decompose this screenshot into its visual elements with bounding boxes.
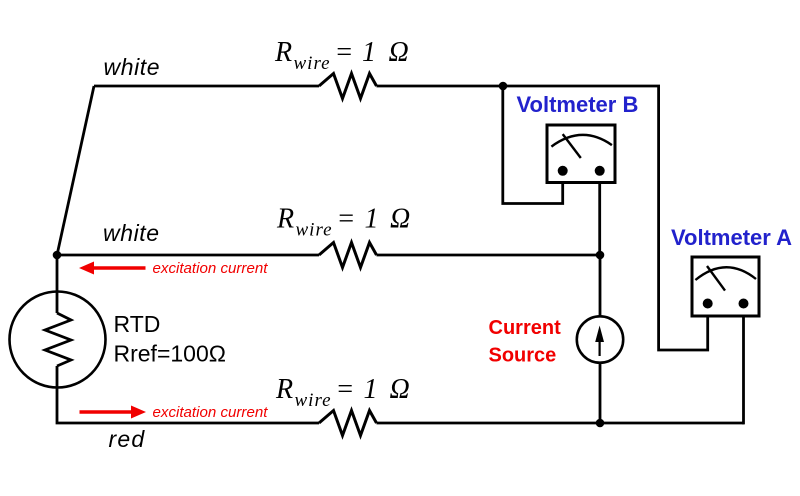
svg-text:1: 1 xyxy=(362,37,376,68)
svg-text:Voltmeter A: Voltmeter A xyxy=(671,225,792,250)
arrow: excitation current (middle, pointing left) xyxy=(79,262,146,275)
svg-text:R: R xyxy=(275,374,293,405)
node: junction dot on top wire xyxy=(499,82,508,91)
wire: top white lead, horizontal left segment xyxy=(94,85,319,88)
svg-text:white: white xyxy=(103,220,160,246)
node: junction dot at RTD top xyxy=(53,251,62,260)
voltmeter A terminal dots xyxy=(703,299,713,309)
svg-text:1: 1 xyxy=(364,374,378,405)
wire: bottom red lead, horizontal right segment xyxy=(377,422,745,425)
node: junction dot middle wire / current source xyxy=(596,251,605,260)
svg-text:Rref=100Ω: Rref=100Ω xyxy=(114,341,226,367)
svg-text:=: = xyxy=(336,374,355,405)
wire: diagonal from top wire down to RTD node xyxy=(57,86,94,255)
label Rwire = 1 Ω (middle) xyxy=(276,204,410,241)
svg-text:wire: wire xyxy=(294,53,331,74)
svg-text:=: = xyxy=(335,37,354,68)
RTD circle xyxy=(10,292,106,388)
voltmeter B scale arc xyxy=(551,135,612,147)
svg-text:wire: wire xyxy=(295,390,332,411)
RTD internal resistor zigzag xyxy=(45,313,71,366)
voltmeter B terminal dots xyxy=(558,166,568,176)
svg-text:1: 1 xyxy=(365,204,379,235)
label Current Source xyxy=(489,317,562,366)
svg-text:R: R xyxy=(276,204,294,235)
current source circle xyxy=(577,316,623,362)
wire: RTD bottom lead and bottom-left corner xyxy=(57,366,319,423)
svg-text:red: red xyxy=(109,426,146,452)
wire: voltmeter B right lead down to middle wire xyxy=(598,176,601,255)
svg-text:Current: Current xyxy=(489,317,562,339)
wire: top wire corner down right side to voltmeter A left lead xyxy=(659,86,708,350)
wire: top white lead, horizontal right segment xyxy=(377,85,661,88)
resistor Rwire (bottom) xyxy=(319,411,377,436)
svg-text:Ω: Ω xyxy=(390,204,410,235)
voltmeter A needle xyxy=(707,266,725,291)
label Rwire = 1 Ω (top) xyxy=(274,37,409,74)
wire: middle white lead, horizontal right segment xyxy=(377,254,601,257)
arrow: excitation current (bottom, pointing right) xyxy=(80,406,147,419)
label Rwire = 1 Ω (bottom) xyxy=(275,374,410,411)
svg-text:excitation current: excitation current xyxy=(153,404,269,421)
voltmeter A scale arc xyxy=(695,267,756,280)
svg-text:=: = xyxy=(337,204,356,235)
svg-text:Ω: Ω xyxy=(390,374,410,405)
wire: current source top lead xyxy=(599,255,602,317)
current source arrow (up) xyxy=(595,326,604,357)
voltmeter B box xyxy=(547,125,615,183)
svg-text:Ω: Ω xyxy=(389,37,409,68)
voltmeter B needle xyxy=(563,134,581,158)
voltmeter A box xyxy=(692,257,759,316)
wire: current source bottom lead xyxy=(599,363,602,424)
svg-text:excitation current: excitation current xyxy=(153,260,269,277)
wire: middle white lead, horizontal left segment xyxy=(57,254,319,257)
svg-text:wire: wire xyxy=(296,220,333,241)
resistor Rwire (top) xyxy=(319,74,377,99)
wire: RTD top lead xyxy=(56,255,59,313)
node: junction dot bottom wire xyxy=(596,419,605,428)
svg-text:Voltmeter B: Voltmeter B xyxy=(517,92,639,117)
svg-text:Source: Source xyxy=(489,344,557,366)
svg-text:R: R xyxy=(274,37,292,68)
wire: voltmeter A right lead down to bottom wire xyxy=(742,309,744,423)
resistor Rwire (middle) xyxy=(319,243,377,268)
wire: voltmeter B left lead (down, left, up to top-wire junction) xyxy=(503,86,563,204)
svg-text:white: white xyxy=(104,54,161,80)
svg-text:RTD: RTD xyxy=(114,311,161,337)
